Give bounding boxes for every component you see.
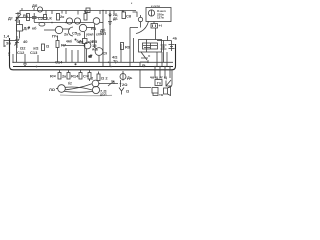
svg-text:≈: ≈: [148, 54, 151, 59]
svg-text:усил: усил: [86, 33, 93, 37]
svg-text:Дт: Дт: [8, 16, 13, 21]
svg-text:*: *: [131, 2, 133, 6]
svg-text:2: 2: [91, 76, 94, 81]
svg-text:ПЧ: ПЧ: [52, 34, 58, 39]
svg-text:б2: б2: [68, 82, 72, 86]
svg-text:ЛΩ: ЛΩ: [49, 87, 56, 92]
svg-text:1,4: 1,4: [4, 34, 10, 39]
svg-text:≡а: ≡а: [159, 93, 163, 97]
svg-text:2к: 2к: [64, 32, 68, 37]
svg-text:Ω: Ω: [126, 89, 130, 94]
svg-text:Тр: Тр: [113, 59, 118, 64]
svg-text:1,К: 1,К: [46, 16, 52, 21]
svg-text:R7: R7: [61, 43, 67, 48]
svg-text:Дб: Дб: [32, 3, 38, 8]
svg-text:2а: 2а: [142, 63, 146, 67]
svg-text:2к: 2к: [62, 74, 66, 79]
svg-text:кб: кб: [32, 26, 37, 31]
svg-text:Дп: Дп: [24, 26, 30, 31]
svg-text:ДОЛ: ДОЛ: [100, 93, 107, 97]
svg-text:у: у: [8, 51, 11, 56]
svg-text:2к: 2к: [60, 14, 64, 19]
svg-text:ча щ лг щ: ча щ лг щ: [150, 76, 167, 80]
svg-text:с7: с7: [89, 55, 93, 59]
svg-text:2б: 2б: [77, 33, 81, 37]
svg-text:С9: С9: [103, 52, 107, 56]
svg-text:+Б: +Б: [173, 37, 178, 41]
svg-text:ДБ: ДБ: [113, 17, 118, 21]
svg-text:ФП: ФП: [100, 31, 106, 36]
svg-text:R3: R3: [91, 26, 97, 31]
svg-text:R1: R1: [23, 13, 29, 18]
svg-text:Ω 2: Ω 2: [101, 76, 108, 81]
svg-text:+!: +!: [159, 23, 163, 28]
svg-text:С8: С8: [126, 14, 132, 19]
svg-text:R9: R9: [125, 45, 131, 50]
svg-text:R≍: R≍: [50, 74, 57, 79]
svg-text:2Ω: 2Ω: [122, 82, 128, 87]
svg-text:С14: С14: [55, 60, 63, 65]
svg-text:Гп: Гп: [157, 82, 161, 86]
svg-text:R14: R14: [71, 74, 79, 79]
svg-text:Ω: Ω: [46, 44, 50, 49]
svg-text:4Ω: 4Ω: [78, 40, 84, 45]
svg-text:Ась: Ась: [92, 48, 98, 52]
svg-text:L2: L2: [84, 9, 89, 14]
svg-text:Дь: Дь: [127, 75, 133, 80]
svg-text:С2: С2: [38, 16, 44, 21]
svg-text:С≍: С≍: [83, 74, 90, 79]
svg-text:127в: 127в: [157, 16, 164, 20]
svg-text:4Аб: 4Аб: [66, 40, 72, 44]
svg-text:40: 40: [23, 39, 28, 44]
svg-text:Зв: Зв: [6, 41, 12, 46]
svg-text:С13: С13: [30, 50, 38, 55]
svg-text:к сети: к сети: [151, 4, 160, 8]
svg-text:С12: С12: [17, 50, 25, 55]
